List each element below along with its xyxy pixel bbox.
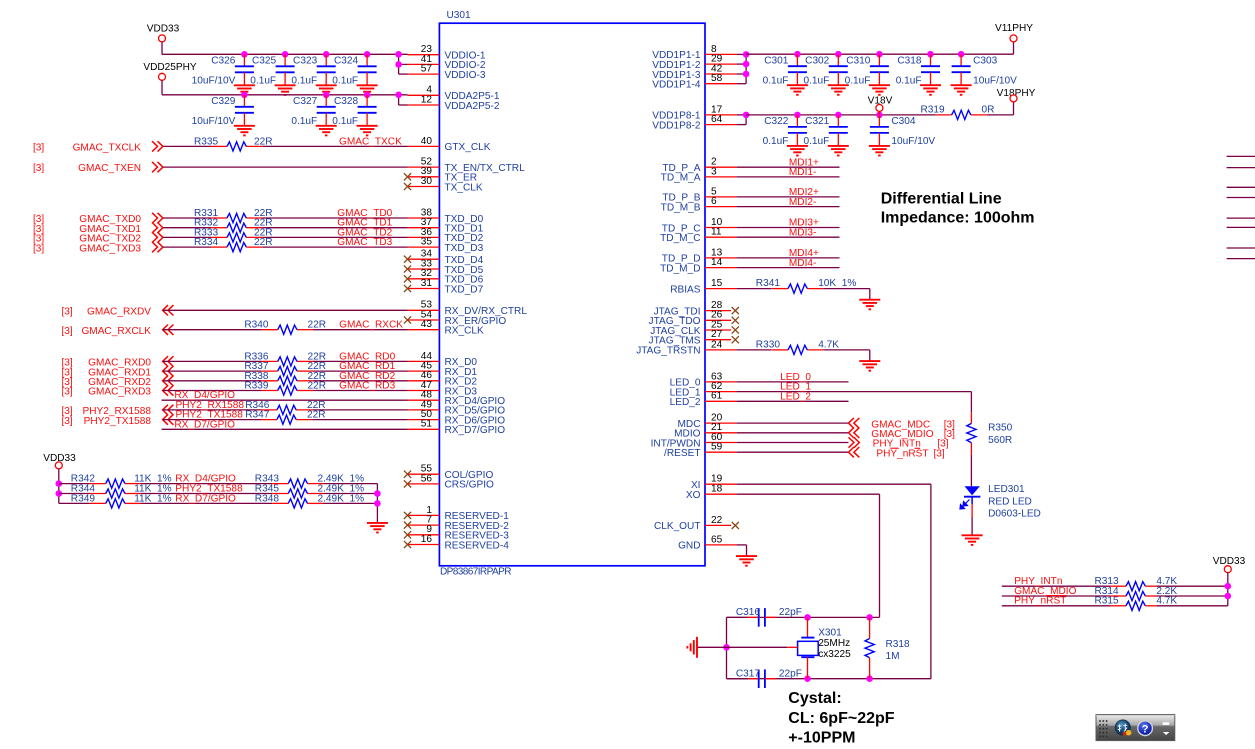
resistor R318 1M bbox=[865, 617, 910, 678]
wire R330 to ground bbox=[823, 350, 870, 361]
net label MDI2- bbox=[789, 197, 816, 208]
wire MDI4- bbox=[737, 267, 840, 269]
ground for C321 bbox=[828, 146, 849, 156]
svg-text:25MHz: 25MHz bbox=[818, 638, 850, 649]
wire R313 to VDD33 bbox=[1156, 585, 1227, 587]
svg-text:4.7K: 4.7K bbox=[818, 339, 839, 350]
off-page connector GMAC_TXD3 bbox=[33, 242, 163, 254]
junction dots VDD1P1 bus bbox=[794, 51, 964, 58]
svg-text:C329: C329 bbox=[211, 96, 236, 107]
resistor R346 22R bbox=[245, 400, 325, 415]
pin 40 GTX_CLK bbox=[408, 136, 491, 153]
ground for C323 bbox=[316, 85, 337, 95]
pin 57 VDDIO-3 bbox=[408, 64, 486, 81]
wire VDD1P1 pin tie column bbox=[737, 54, 747, 83]
wire right-edge stub 2 bbox=[1227, 167, 1255, 169]
svg-text:XO: XO bbox=[686, 490, 701, 501]
svg-text:Impedance: 100ohm: Impedance: 100ohm bbox=[881, 210, 1035, 227]
pin 1 RESERVED-1 bbox=[404, 505, 509, 522]
svg-text:VDD33: VDD33 bbox=[147, 23, 180, 34]
pin 31 TXD_D7 bbox=[404, 278, 484, 295]
svg-text:MDI4-: MDI4- bbox=[789, 258, 816, 269]
wire right-edge stub 7 bbox=[1227, 247, 1255, 249]
net label PHY_nRST (pullup) bbox=[1014, 596, 1066, 607]
wire VDD25PHY bus drop to pin 12 bbox=[399, 95, 408, 105]
net label GMAC_TXCK bbox=[339, 136, 402, 147]
ground for C318 bbox=[920, 85, 941, 95]
pin 56 CRS/GPIO bbox=[404, 473, 494, 490]
net label PHY2_TX1588 (network) bbox=[175, 484, 243, 495]
wire JTAG_TRSTN to R330 bbox=[737, 349, 772, 351]
net label RX_D4/GPIO bbox=[174, 390, 235, 401]
svg-text:11: 11 bbox=[711, 227, 722, 238]
svg-text:PHY2_TX1588: PHY2_TX1588 bbox=[84, 416, 152, 427]
svg-text:TX_CLK: TX_CLK bbox=[445, 182, 483, 193]
resistor R338 22R bbox=[244, 371, 326, 386]
pin 11 TD_M_C bbox=[660, 227, 736, 244]
power symbol VDD33 (bottom right) bbox=[1213, 556, 1246, 606]
resistor R313 4.7K bbox=[1095, 576, 1178, 591]
resistor R337 22R bbox=[244, 361, 326, 376]
svg-text:[3]: [3] bbox=[62, 387, 73, 398]
svg-text:C324: C324 bbox=[334, 56, 359, 67]
pin 6 TD_M_B bbox=[661, 196, 737, 213]
svg-text:MDI1-: MDI1- bbox=[789, 167, 816, 178]
svg-text:10K 1%: 10K 1% bbox=[818, 278, 856, 289]
svg-text:R339: R339 bbox=[244, 381, 269, 392]
svg-text:DP83867IRPAPR: DP83867IRPAPR bbox=[440, 567, 511, 578]
svg-text:C317: C317 bbox=[736, 669, 761, 680]
pin 19 XI bbox=[691, 474, 737, 491]
pin 8 VDD1P1-1 bbox=[652, 44, 736, 61]
crystal X301 25MHz cx3225 bbox=[727, 617, 852, 678]
svg-text:C321: C321 bbox=[805, 116, 830, 127]
svg-text:51: 51 bbox=[421, 419, 433, 430]
wire LED_2 bbox=[737, 400, 849, 402]
svg-text:0.1uF: 0.1uF bbox=[291, 76, 317, 87]
wire R332 to chip bbox=[262, 227, 407, 229]
svg-text:35: 35 bbox=[421, 237, 433, 248]
pin 25 JTAG_CLK bbox=[650, 319, 739, 336]
svg-text:[3]: [3] bbox=[62, 416, 73, 427]
svg-text:R315: R315 bbox=[1095, 596, 1120, 607]
wire LED301 to ground bbox=[971, 517, 973, 535]
wire GMAC_TXD3 to R334 bbox=[163, 246, 211, 248]
net label GMAC_MDIO (pullup) bbox=[1014, 586, 1076, 597]
pin 51 RX_D7/GPIO bbox=[408, 419, 506, 436]
pin 48 RX_D4/GPIO bbox=[408, 390, 506, 407]
svg-text:64: 64 bbox=[711, 114, 723, 125]
svg-text:TD_M_B: TD_M_B bbox=[661, 202, 701, 213]
svg-text:R335: R335 bbox=[194, 136, 219, 147]
svg-text:LED_2: LED_2 bbox=[670, 397, 701, 408]
wire PHY_INTn bbox=[737, 442, 849, 444]
svg-text:MDI2-: MDI2- bbox=[789, 197, 816, 208]
svg-text:0R: 0R bbox=[982, 104, 995, 115]
svg-text:RESERVED-4: RESERVED-4 bbox=[445, 540, 510, 551]
wire GMAC_MDC bbox=[737, 422, 849, 424]
svg-text:GMAC_TXCLK: GMAC_TXCLK bbox=[73, 142, 142, 153]
wire GMAC_RXD0 to R336 bbox=[163, 360, 262, 362]
junction dots crystal top rail bbox=[804, 614, 873, 621]
pin 24 JTAG_TRSTN bbox=[636, 339, 736, 356]
pin 10 TD_P_C bbox=[662, 217, 737, 234]
ground for C302 bbox=[828, 85, 849, 95]
junction dots VDD1P8 bus bbox=[794, 112, 883, 119]
off-page connector GMAC_TXD1 bbox=[33, 223, 163, 235]
pin 55 COL/GPIO bbox=[404, 464, 494, 481]
wire GMAC_RXD1 to R337 bbox=[163, 370, 262, 372]
svg-text:VDD25PHY: VDD25PHY bbox=[143, 62, 197, 73]
net label RX_D7/GPIO (network) bbox=[175, 493, 236, 504]
wire ground to crystal bbox=[697, 646, 727, 648]
net label GMAC_TD3 bbox=[337, 237, 392, 248]
svg-text:GMAC_RD3: GMAC_RD3 bbox=[339, 381, 395, 392]
power symbol V18V bbox=[868, 95, 893, 115]
resistor R331 22R bbox=[194, 208, 273, 223]
svg-text:RBIAS: RBIAS bbox=[670, 284, 701, 295]
net label GMAC_RD2 bbox=[339, 371, 395, 382]
pin 47 RX_D3 bbox=[408, 380, 478, 397]
wire MDI2+ bbox=[737, 196, 840, 198]
svg-text:C322: C322 bbox=[764, 116, 789, 127]
wire LED_0 bbox=[737, 381, 849, 383]
svg-text:V11PHY: V11PHY bbox=[995, 23, 1033, 34]
wire R314 to VDD33 bbox=[1156, 595, 1227, 597]
svg-text:[3]: [3] bbox=[934, 448, 945, 459]
svg-text:C310: C310 bbox=[846, 56, 871, 67]
pin 34 TXD_D4 bbox=[404, 249, 484, 266]
resistor R342 11K 1% bbox=[71, 474, 172, 489]
pin 7 RESERVED-2 bbox=[404, 515, 509, 532]
wire R315 to VDD33 bbox=[1156, 605, 1227, 607]
wire R344 to R345 bbox=[141, 493, 272, 495]
pin 60 INT/PWDN bbox=[651, 432, 737, 449]
wire GMAC_TXEN to pin 52 bbox=[163, 166, 408, 168]
off-page connector GMAC_RXCLK bbox=[62, 325, 174, 337]
svg-text:R341: R341 bbox=[756, 278, 781, 289]
wire RX_D7/GPIO to pin 51 bbox=[162, 428, 408, 430]
wire right-edge stub 1 bbox=[1227, 155, 1255, 157]
capacitor C328 0.1uF bbox=[332, 95, 376, 127]
svg-text:CL: 6pF~22pF: CL: 6pF~22pF bbox=[788, 710, 894, 727]
svg-text:0.1uF: 0.1uF bbox=[896, 75, 922, 86]
svg-text:560R: 560R bbox=[988, 435, 1012, 446]
ground (LED301) bbox=[962, 535, 983, 545]
off-page connector GMAC_TXCLK bbox=[33, 141, 163, 153]
capacitor C318 0.1uF bbox=[896, 54, 940, 86]
svg-text:0.1uF: 0.1uF bbox=[332, 116, 358, 127]
pin 65 GND bbox=[678, 534, 737, 551]
wire PHY_INTn pullup bbox=[1002, 585, 1110, 587]
svg-text:C326: C326 bbox=[211, 56, 236, 67]
svg-text:U301: U301 bbox=[447, 10, 472, 21]
net label MDI4- bbox=[789, 258, 816, 269]
svg-text:C318: C318 bbox=[897, 56, 922, 67]
pin 63 LED_0 bbox=[670, 371, 737, 388]
pin 13 TD_P_D bbox=[662, 247, 737, 264]
svg-text:LED301: LED301 bbox=[988, 484, 1025, 495]
note crystal parameters bbox=[788, 690, 894, 746]
svg-text:22pF: 22pF bbox=[779, 669, 802, 680]
svg-text:31: 31 bbox=[421, 278, 433, 289]
svg-text:16: 16 bbox=[421, 534, 433, 545]
svg-text:R334: R334 bbox=[194, 237, 219, 248]
off-page connector GMAC_TXD0 bbox=[33, 213, 163, 225]
wire GMAC_MDIO pullup bbox=[1002, 595, 1110, 597]
pin 64 VDD1P8-2 bbox=[652, 114, 736, 131]
wire GMAC_TXD2 to R333 bbox=[163, 236, 211, 238]
wire XI to crystal bbox=[737, 484, 931, 679]
pin 3 TD_M_A bbox=[661, 166, 737, 183]
net label MDI1+ bbox=[789, 157, 819, 168]
resistor R344 11K 1% bbox=[71, 484, 172, 499]
pin 4 VDDA2P5-1 bbox=[408, 85, 500, 102]
wire R335 to pin 40 bbox=[262, 145, 407, 147]
wire XO to crystal bbox=[737, 494, 880, 617]
svg-text:22pF: 22pF bbox=[779, 607, 802, 618]
svg-text:GMAC_TXD3: GMAC_TXD3 bbox=[79, 243, 141, 254]
capacitor C310 0.1uF bbox=[845, 54, 889, 86]
net label GMAC_TD1 bbox=[337, 218, 392, 229]
ground for C327 bbox=[316, 126, 337, 136]
wire GMAC_TXCLK to R335 bbox=[163, 145, 211, 147]
wire R331 to chip bbox=[262, 217, 407, 219]
capacitor C302 0.1uF bbox=[803, 54, 847, 86]
junction dots crystal bottom rail bbox=[804, 675, 873, 682]
net label LED_2 bbox=[780, 391, 811, 402]
svg-text:GMAC_RXD3: GMAC_RXD3 bbox=[88, 387, 151, 398]
svg-text:+-10PPM: +-10PPM bbox=[788, 730, 855, 747]
net label PHY_INTn (pullup) bbox=[1014, 576, 1062, 587]
svg-text:Cystal:: Cystal: bbox=[788, 690, 841, 707]
wire R319 to V18PHY bbox=[987, 102, 1014, 115]
wire crystal top rail bbox=[727, 616, 880, 618]
wire PHY2_TX1588 to R347 bbox=[163, 419, 261, 421]
junction dots VDD33 pullups bbox=[1225, 583, 1232, 599]
svg-text:65: 65 bbox=[711, 534, 723, 545]
svg-text:3: 3 bbox=[711, 166, 717, 177]
pin 20 MDC bbox=[678, 413, 737, 430]
off-page connector PHY_nRST bbox=[849, 447, 945, 459]
svg-text:0.1uF: 0.1uF bbox=[763, 75, 789, 86]
off-page connector PHY2_RX1588 bbox=[62, 405, 174, 417]
svg-text:R347: R347 bbox=[245, 410, 270, 421]
svg-text:TD_M_A: TD_M_A bbox=[661, 173, 701, 184]
ground (pin 65) bbox=[736, 556, 757, 566]
wire GMAC_TXD0 to R331 bbox=[163, 217, 211, 219]
pin 50 RX_D6/GPIO bbox=[408, 409, 506, 426]
capacitor C327 0.1uF bbox=[291, 95, 335, 127]
junction dot VDD1P8 tie bbox=[743, 112, 750, 119]
ground for C328 bbox=[357, 126, 378, 136]
resistor R336 22R bbox=[244, 351, 326, 366]
svg-text:GND: GND bbox=[678, 541, 700, 552]
wire R334 to chip bbox=[262, 246, 407, 248]
svg-text:PHY_nRST: PHY_nRST bbox=[876, 448, 928, 459]
pin 53 RX_DV/RX_CTRL bbox=[408, 300, 528, 317]
capacitor C317 22pF bbox=[727, 669, 802, 689]
note differential line impedance bbox=[881, 190, 1035, 226]
svg-text:R348: R348 bbox=[255, 493, 280, 504]
pin 14 TD_M_D bbox=[660, 257, 736, 274]
capacitor C321 0.1uF bbox=[803, 115, 847, 147]
pin 21 MDIO bbox=[674, 422, 736, 439]
resistor R348 2.49K 1% bbox=[255, 493, 364, 508]
resistor R333 22R bbox=[194, 227, 273, 242]
wire R338 to chip bbox=[313, 380, 408, 382]
resistor R345 2.49K 1% bbox=[255, 484, 364, 499]
resistor R349 11K 1% bbox=[71, 493, 172, 508]
capacitor C329 10uF/10V bbox=[192, 95, 254, 127]
ground for C326 bbox=[234, 85, 255, 95]
svg-text:[3]: [3] bbox=[33, 142, 44, 153]
junction dots VDD33 column bbox=[56, 480, 63, 497]
wire right-edge stub 6 bbox=[1227, 226, 1255, 228]
capacitor C326 10uF/10V bbox=[192, 54, 254, 86]
svg-text:CLK_OUT: CLK_OUT bbox=[654, 521, 701, 532]
wire VDD33 to R344 bbox=[59, 493, 90, 495]
ground (RBIAS) bbox=[859, 300, 880, 310]
svg-text:40: 40 bbox=[421, 136, 433, 147]
net label GMAC_TD2 bbox=[337, 227, 392, 238]
wire MDI3+ bbox=[737, 227, 840, 229]
net label RX_D7/GPIO bbox=[174, 419, 235, 430]
svg-text:C304: C304 bbox=[891, 116, 916, 127]
svg-text:GMAC_RXCLK: GMAC_RXCLK bbox=[81, 326, 151, 337]
ground for C324 bbox=[357, 85, 378, 95]
svg-text:?: ? bbox=[1142, 723, 1149, 735]
wire MDI4+ bbox=[737, 257, 840, 259]
power symbol VDD33 (lower left) bbox=[43, 453, 76, 503]
resistor R332 22R bbox=[194, 218, 273, 233]
ground for C303 bbox=[951, 85, 972, 95]
svg-text:TD_M_C: TD_M_C bbox=[660, 233, 700, 244]
wire R347 to pin 50 bbox=[312, 419, 407, 421]
net label GMAC_RD3 bbox=[339, 381, 395, 392]
svg-text:C323: C323 bbox=[293, 56, 318, 67]
capacitor C325 0.1uF bbox=[250, 54, 294, 86]
junction dot crystal wall bbox=[723, 644, 730, 651]
U301 part number bbox=[440, 567, 511, 578]
pin 18 XO bbox=[686, 484, 737, 501]
svg-text:JTAG_TRSTN: JTAG_TRSTN bbox=[636, 346, 700, 357]
LED D301 LED301 RED LED D0603-LED bbox=[960, 484, 1041, 520]
resistor R341 10K 1% bbox=[756, 278, 857, 293]
svg-text:[3]: [3] bbox=[62, 326, 73, 337]
pin 42 VDD1P1-3 bbox=[652, 63, 736, 80]
wire VDD33 to R342 bbox=[59, 483, 90, 485]
svg-text:R340: R340 bbox=[244, 320, 269, 331]
net label LED_1 bbox=[780, 382, 811, 393]
pin 29 VDD1P1-2 bbox=[652, 54, 736, 71]
wire VDD1P1 bus bbox=[746, 42, 1013, 55]
resistor R339 22R bbox=[244, 381, 326, 396]
wire R341 to ground bbox=[823, 289, 870, 300]
svg-text:GTX_CLK: GTX_CLK bbox=[445, 142, 491, 153]
wire RX_D4/GPIO to pin 48 bbox=[162, 399, 408, 401]
capacitor C324 0.1uF bbox=[332, 54, 376, 86]
net label GMAC_TD0 bbox=[337, 208, 392, 219]
wire GMAC_MDIO bbox=[737, 432, 849, 434]
svg-text:/RESET: /RESET bbox=[664, 448, 700, 459]
svg-text:RX_D7/GPIO: RX_D7/GPIO bbox=[174, 419, 235, 430]
resistor R335 22R bbox=[194, 136, 273, 151]
net label PHY2_TX1588 (at resistor) bbox=[176, 410, 244, 421]
svg-text:6: 6 bbox=[711, 196, 717, 207]
wire MDI2- bbox=[737, 206, 840, 208]
net label RX_D4/GPIO (network) bbox=[175, 474, 236, 485]
svg-text:R318: R318 bbox=[886, 639, 911, 650]
svg-text:D0603-LED: D0603-LED bbox=[988, 509, 1041, 520]
wire right-edge stub 4 bbox=[1227, 197, 1255, 199]
wire R348 to ground column bbox=[324, 502, 378, 504]
pin 54 RX_ER/GPIO bbox=[404, 309, 506, 326]
svg-text:C316: C316 bbox=[736, 607, 761, 618]
svg-text:58: 58 bbox=[711, 73, 723, 84]
off-page connector GMAC_TXEN bbox=[33, 162, 163, 174]
wire MDI1+ bbox=[737, 166, 840, 168]
ground (crystal, sideways) bbox=[687, 637, 697, 658]
capacitor C322 0.1uF bbox=[763, 115, 807, 147]
svg-text:LED_2: LED_2 bbox=[780, 391, 811, 402]
ground (JTAG_TRSTN) bbox=[859, 361, 880, 371]
svg-text:14: 14 bbox=[711, 257, 723, 268]
net label PHY2_RX1588 (at resistor) bbox=[176, 400, 245, 411]
wire GND pin to ground bbox=[737, 545, 747, 556]
wire right-edge stub 5 bbox=[1227, 217, 1255, 219]
svg-text:VDD1P8-2: VDD1P8-2 bbox=[652, 120, 701, 131]
svg-text:0.1uF: 0.1uF bbox=[291, 116, 317, 127]
wire right-edge stub 8 bbox=[1227, 258, 1255, 260]
wire R339 to chip bbox=[313, 390, 408, 392]
svg-text:MDI3-: MDI3- bbox=[789, 227, 816, 238]
wire VDD1P8 pin tie column bbox=[737, 115, 747, 125]
wire GMAC_RXDV to pin 53 bbox=[163, 309, 408, 311]
off-page connector GMAC_RXD2 bbox=[62, 376, 174, 388]
power symbol VDD33 (top left) bbox=[147, 23, 180, 54]
wire R333 to chip bbox=[262, 236, 407, 238]
svg-text:57: 57 bbox=[421, 64, 433, 75]
svg-text:0.1uF: 0.1uF bbox=[332, 76, 358, 87]
svg-text:0.1uF: 0.1uF bbox=[250, 76, 276, 87]
wire PHY_nRST pullup bbox=[1002, 605, 1110, 607]
pin 26 JTAG_TDO bbox=[649, 310, 739, 327]
net label MDI3+ bbox=[789, 218, 819, 229]
wire VDD25PHY bus bbox=[162, 94, 408, 96]
net label GMAC_RXCK bbox=[339, 320, 403, 331]
svg-text:C328: C328 bbox=[334, 96, 359, 107]
ground for C322 bbox=[787, 146, 808, 156]
resistor R343 2.49K 1% bbox=[255, 474, 364, 489]
wire right-edge stub 3 bbox=[1227, 186, 1255, 188]
screenshot tool toolbar overlay bbox=[1096, 715, 1175, 741]
wire VDD33 bus bbox=[162, 53, 408, 55]
pin 58 VDD1P1-4 bbox=[652, 73, 736, 90]
svg-text:24: 24 bbox=[711, 339, 723, 350]
wire LED_1 to R350 bbox=[737, 392, 972, 413]
capacitor C303 10uF/10V bbox=[952, 54, 1018, 86]
svg-text:43: 43 bbox=[421, 319, 433, 330]
svg-text:R319: R319 bbox=[921, 104, 946, 115]
svg-text:0.1uF: 0.1uF bbox=[803, 136, 829, 147]
svg-text:56: 56 bbox=[421, 473, 433, 484]
svg-text:RX_CLK: RX_CLK bbox=[445, 326, 485, 337]
svg-text:C303: C303 bbox=[973, 56, 998, 67]
pin 37 TXD_D1 bbox=[408, 217, 484, 234]
svg-text:R350: R350 bbox=[988, 423, 1013, 434]
off-page connector GMAC_MDIO bbox=[849, 428, 956, 440]
